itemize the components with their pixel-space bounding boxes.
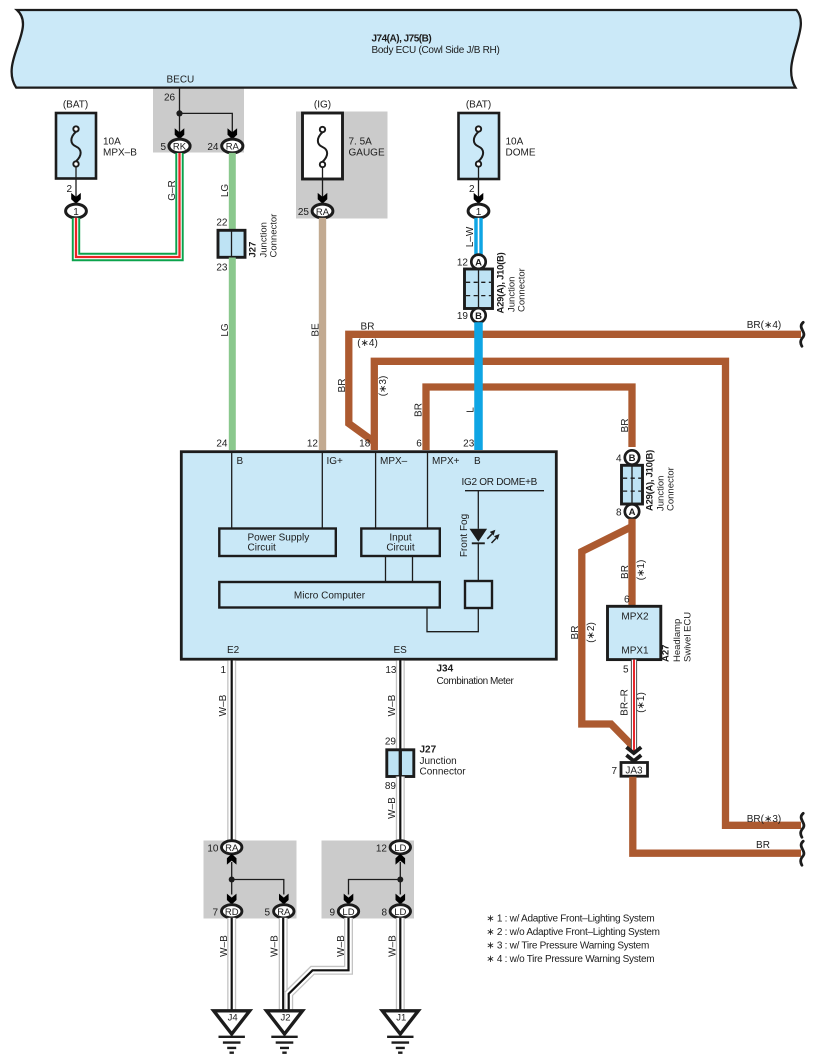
svg-text:26: 26 (164, 93, 176, 104)
svg-text:W–B: W–B (336, 935, 347, 957)
svg-text:10A: 10A (103, 137, 121, 148)
svg-text:(∗4): (∗4) (357, 338, 378, 349)
J34 label (437, 664, 515, 688)
internal wire B pin24 (231, 453, 233, 529)
wire W-B pin 7 to ground J4 (219, 918, 232, 1010)
A27 headlamp swivel ECU (608, 595, 694, 676)
connector banner J74(A),J75(B) Body ECU (12, 10, 801, 88)
branch wire pin12 to pins 9 and 8 (349, 862, 404, 895)
svg-text:BR–R: BR–R (619, 689, 630, 716)
fuse F2 7.5A GAUGE (303, 100, 385, 204)
power supply circuit block (219, 529, 335, 557)
wire W-B pin 8 to ground J1 (388, 918, 401, 1010)
svg-text:(∗1): (∗1) (636, 560, 647, 581)
svg-text:RA: RA (316, 207, 330, 218)
svg-text:(IG): (IG) (314, 100, 331, 111)
svg-text:1: 1 (220, 665, 226, 676)
pin 7 RD oval (212, 905, 241, 919)
pin 24 RA oval (207, 139, 243, 153)
connector arrow into pin 24 (228, 128, 238, 139)
svg-text:MPX1: MPX1 (621, 646, 649, 657)
svg-text:A29(A), J10(B): A29(A), J10(B) (496, 252, 507, 313)
svg-text:W–B: W–B (219, 935, 230, 957)
wire W-B from ES to J27 (387, 661, 400, 750)
legend notes (486, 914, 659, 966)
svg-text:LD: LD (342, 907, 354, 918)
svg-text:10A: 10A (506, 137, 524, 148)
svg-text:Connector: Connector (420, 767, 467, 778)
front fog LED D1 (470, 529, 488, 542)
svg-text:Circuit: Circuit (386, 543, 415, 554)
svg-text:∗ 4 : w/o Tire Pressure Warnin: ∗ 4 : w/o Tire Pressure Warning System (486, 954, 654, 965)
pin 12 LD oval (376, 841, 411, 855)
svg-text:(∗3): (∗3) (378, 376, 389, 397)
svg-text:10: 10 (207, 843, 219, 854)
svg-text:25: 25 (298, 207, 310, 218)
svg-text:JA3: JA3 (625, 765, 643, 776)
wire BR (*3) from pin 18 to right break (374, 361, 801, 825)
svg-text:J34: J34 (437, 664, 454, 675)
junction connector A29(A),J10(B) upper (457, 252, 528, 322)
wire LG from J27 to J34 pin 24 (220, 258, 233, 451)
wire driver to micro computer (427, 608, 478, 632)
junction node dot (229, 877, 235, 883)
shaded area bottom-right relay block (322, 841, 415, 919)
svg-text:J74(A), J75(B): J74(A), J75(B) (372, 34, 432, 45)
svg-text:E2: E2 (227, 645, 240, 656)
shaded junction area BECU pins (153, 88, 244, 153)
arrow out of pin 12 (396, 854, 406, 865)
junction connector J27 (22/23) (216, 214, 279, 274)
svg-text:DOME: DOME (506, 148, 536, 159)
svg-text:6: 6 (416, 439, 422, 450)
svg-text:Micro Computer: Micro Computer (294, 591, 366, 602)
svg-text:BR(∗3): BR(∗3) (747, 814, 782, 825)
svg-text:BR: BR (756, 840, 770, 851)
wire BECU branch to pins 5 and 24 (176, 88, 232, 135)
junction node dot (176, 110, 182, 116)
wire BR junction-B branch down right side (616, 450, 639, 464)
svg-text:Circuit: Circuit (248, 543, 277, 554)
svg-text:RA: RA (226, 142, 240, 153)
pin 9 LD oval (329, 905, 358, 919)
svg-text:MPX2: MPX2 (621, 612, 649, 623)
svg-text:RK: RK (173, 142, 187, 153)
ground J2 (267, 1011, 303, 1053)
svg-text:19: 19 (457, 311, 469, 322)
junction connector A29(A),J10(B) right (616, 450, 677, 519)
wire BR from pin 6 MPX+ to junction B (414, 387, 632, 450)
driver block (small square) (465, 581, 492, 608)
svg-text:22: 22 (216, 218, 228, 229)
svg-text:W–B: W–B (388, 935, 399, 957)
svg-text:W–B: W–B (218, 694, 229, 716)
pin 5 RK oval (160, 139, 190, 153)
svg-text:∗ 3 : w/ Tire Pressure Warning: ∗ 3 : w/ Tire Pressure Warning System (486, 941, 649, 952)
svg-text:23: 23 (216, 263, 228, 274)
svg-text:W–B: W–B (387, 694, 398, 716)
svg-text:(∗1): (∗1) (636, 692, 647, 713)
pin 25 RA oval (298, 204, 333, 218)
svg-text:A29(A), J10(B): A29(A), J10(B) (645, 450, 656, 511)
svg-text:8: 8 (381, 907, 387, 918)
svg-text:1: 1 (73, 207, 79, 218)
svg-text:Swivel ECU: Swivel ECU (683, 612, 694, 662)
svg-text:J4: J4 (228, 1013, 238, 1024)
svg-text:89: 89 (385, 781, 397, 792)
svg-text:Connector: Connector (666, 467, 677, 511)
wire BE from pin 25 to J34 pin 12 (310, 218, 322, 450)
svg-text:9: 9 (329, 907, 335, 918)
internal wire MPX+ pin6 (427, 453, 429, 529)
connector 1 oval (below DOME) (468, 204, 489, 218)
break symbol BR (801, 841, 804, 865)
arrow into pin 9 (344, 894, 354, 905)
svg-text:G–R: G–R (167, 180, 178, 201)
pin 5 RA oval (264, 905, 294, 919)
svg-text:8: 8 (616, 507, 622, 518)
fuse F3 10A DOME (459, 100, 536, 204)
wire W-B pin 9 to ground J2 (289, 918, 349, 1010)
J34 combination meter box (181, 452, 556, 660)
arrow into pin 8 (396, 894, 406, 905)
wire LG from pin 24 to J27 (220, 153, 233, 230)
shaded area bottom-left relay block (204, 841, 297, 919)
svg-text:Body ECU (Cowl Side J/B RH): Body ECU (Cowl Side J/B RH) (372, 45, 500, 56)
svg-text:MPX–: MPX– (380, 456, 408, 467)
svg-text:MPX–B: MPX–B (103, 148, 137, 159)
arrow into pin 7 (227, 894, 237, 905)
svg-text:A27: A27 (661, 645, 672, 662)
svg-text:5: 5 (264, 907, 270, 918)
internal wire IG+ pin12 (321, 453, 323, 529)
svg-text:RA: RA (225, 843, 239, 854)
svg-text:L–W: L–W (465, 226, 476, 247)
svg-text:12: 12 (457, 258, 469, 269)
wires input circuit to micro computer (386, 556, 413, 582)
svg-text:B: B (474, 456, 481, 467)
connector 1 oval (below MPX-B) (66, 204, 87, 218)
svg-text:IG+: IG+ (327, 456, 344, 467)
pin 8 LD oval (381, 905, 410, 919)
svg-text:B: B (475, 311, 482, 322)
svg-text:Connector: Connector (269, 214, 280, 258)
svg-text:BR: BR (570, 626, 581, 640)
wire L from junction B to J34 pin 23 (465, 322, 478, 450)
svg-text:Headlamp: Headlamp (672, 619, 683, 662)
svg-text:J27: J27 (420, 745, 437, 756)
svg-text:LG: LG (220, 323, 231, 337)
arrow into pin 5 (279, 894, 289, 905)
svg-text:Combination Meter: Combination Meter (437, 676, 515, 687)
ground J1 (382, 1011, 418, 1053)
svg-text:GAUGE: GAUGE (349, 148, 385, 159)
svg-text:BR: BR (620, 565, 631, 579)
wire BR below JA3 to right break (633, 777, 801, 853)
svg-text:BR: BR (361, 322, 375, 333)
break symbol BR(*4) (801, 322, 804, 346)
break symbol BR(*3) (801, 813, 804, 837)
wire LED to driver block (477, 543, 479, 581)
junction connector J27 (29/89) (385, 737, 466, 793)
svg-text:BR: BR (620, 419, 631, 433)
fuse F1 10A MPX-B (56, 100, 137, 204)
svg-text:Connector: Connector (517, 268, 528, 312)
svg-text:MPX+: MPX+ (432, 456, 460, 467)
svg-text:7: 7 (611, 766, 617, 777)
wire BR (*4) from pin 18 to right break (337, 320, 801, 442)
junction node dot (397, 877, 403, 883)
input circuit block (361, 529, 440, 557)
svg-text:LG: LG (220, 184, 231, 198)
svg-text:LD: LD (394, 907, 406, 918)
svg-text:12: 12 (376, 843, 388, 854)
ground J4 (214, 1011, 250, 1053)
svg-text:24: 24 (216, 439, 228, 450)
svg-text:23: 23 (463, 439, 475, 450)
svg-text:A: A (629, 507, 636, 518)
branch wire pin10 to pins 7 and 5 (229, 862, 284, 895)
svg-text:LD: LD (394, 843, 406, 854)
svg-text:J27: J27 (248, 242, 259, 258)
svg-text:Junction: Junction (420, 756, 457, 767)
micro computer block (219, 582, 439, 608)
svg-text:BECU: BECU (167, 75, 195, 86)
svg-text:12: 12 (307, 439, 319, 450)
svg-text:B: B (629, 453, 636, 464)
wire W-B J27 to relay block LD12 (387, 777, 400, 842)
connector arrows into JA3 (626, 747, 641, 761)
svg-text:1: 1 (476, 207, 482, 218)
svg-text:24: 24 (207, 142, 219, 153)
svg-text:A: A (475, 257, 482, 268)
svg-text:7. 5A: 7. 5A (349, 137, 373, 148)
svg-text:4: 4 (616, 453, 622, 464)
svg-text:RD: RD (225, 907, 239, 918)
svg-text:6: 6 (624, 595, 630, 606)
internal wire MPX- pin18 (375, 453, 377, 529)
svg-text:BR: BR (337, 379, 348, 393)
svg-text:BE: BE (310, 323, 321, 337)
svg-text:5: 5 (623, 665, 629, 676)
svg-text:ES: ES (394, 645, 408, 656)
svg-text:(BAT): (BAT) (63, 100, 88, 111)
connector arrow into pin 5 (175, 128, 185, 139)
wire BR (*1) junction A to A27 pin 6 (620, 519, 647, 606)
pin 10 RA oval (207, 841, 242, 855)
svg-text:BR: BR (414, 403, 425, 417)
wire W-B pin 5 to ground J2 (270, 918, 284, 1010)
svg-text:W–B: W–B (270, 935, 281, 957)
svg-text:13: 13 (385, 665, 397, 676)
svg-text:J1: J1 (396, 1013, 406, 1024)
svg-text:∗ 2 : w/o Adaptive Front–Light: ∗ 2 : w/o Adaptive Front–Lighting System (486, 927, 659, 938)
shaded area fuse GAUGE (296, 112, 388, 219)
wire L-W from connector 1 to junction A (465, 218, 478, 255)
svg-text:18: 18 (359, 439, 371, 450)
svg-text:J2: J2 (280, 1013, 290, 1024)
arrow out of pin 10 (227, 854, 237, 865)
svg-text:(BAT): (BAT) (466, 100, 491, 111)
svg-text:(∗2): (∗2) (586, 622, 597, 643)
wire W-B from E2 to relay block (218, 661, 232, 842)
JA3 connector box (611, 763, 647, 778)
svg-text:W–B: W–B (387, 797, 398, 819)
svg-text:IG2 OR DOME+B: IG2 OR DOME+B (462, 477, 538, 488)
svg-text:B: B (237, 456, 244, 467)
svg-text:L: L (465, 407, 476, 413)
wire G-R from connector 1 to pin 5 RK (76, 153, 180, 257)
svg-text:5: 5 (160, 142, 166, 153)
svg-text:7: 7 (212, 907, 218, 918)
svg-text:Front Fog: Front Fog (459, 514, 470, 557)
wire BR (*2) bypass (570, 527, 634, 748)
svg-text:29: 29 (385, 737, 397, 748)
svg-text:∗ 1 : w/ Adaptive Front–Lighti: ∗ 1 : w/ Adaptive Front–Lighting System (486, 914, 654, 925)
wire BR-R (*1) A27 pin5 to JA3 (619, 660, 647, 752)
svg-text:RA: RA (277, 907, 291, 918)
svg-text:BR(∗4): BR(∗4) (747, 320, 782, 331)
